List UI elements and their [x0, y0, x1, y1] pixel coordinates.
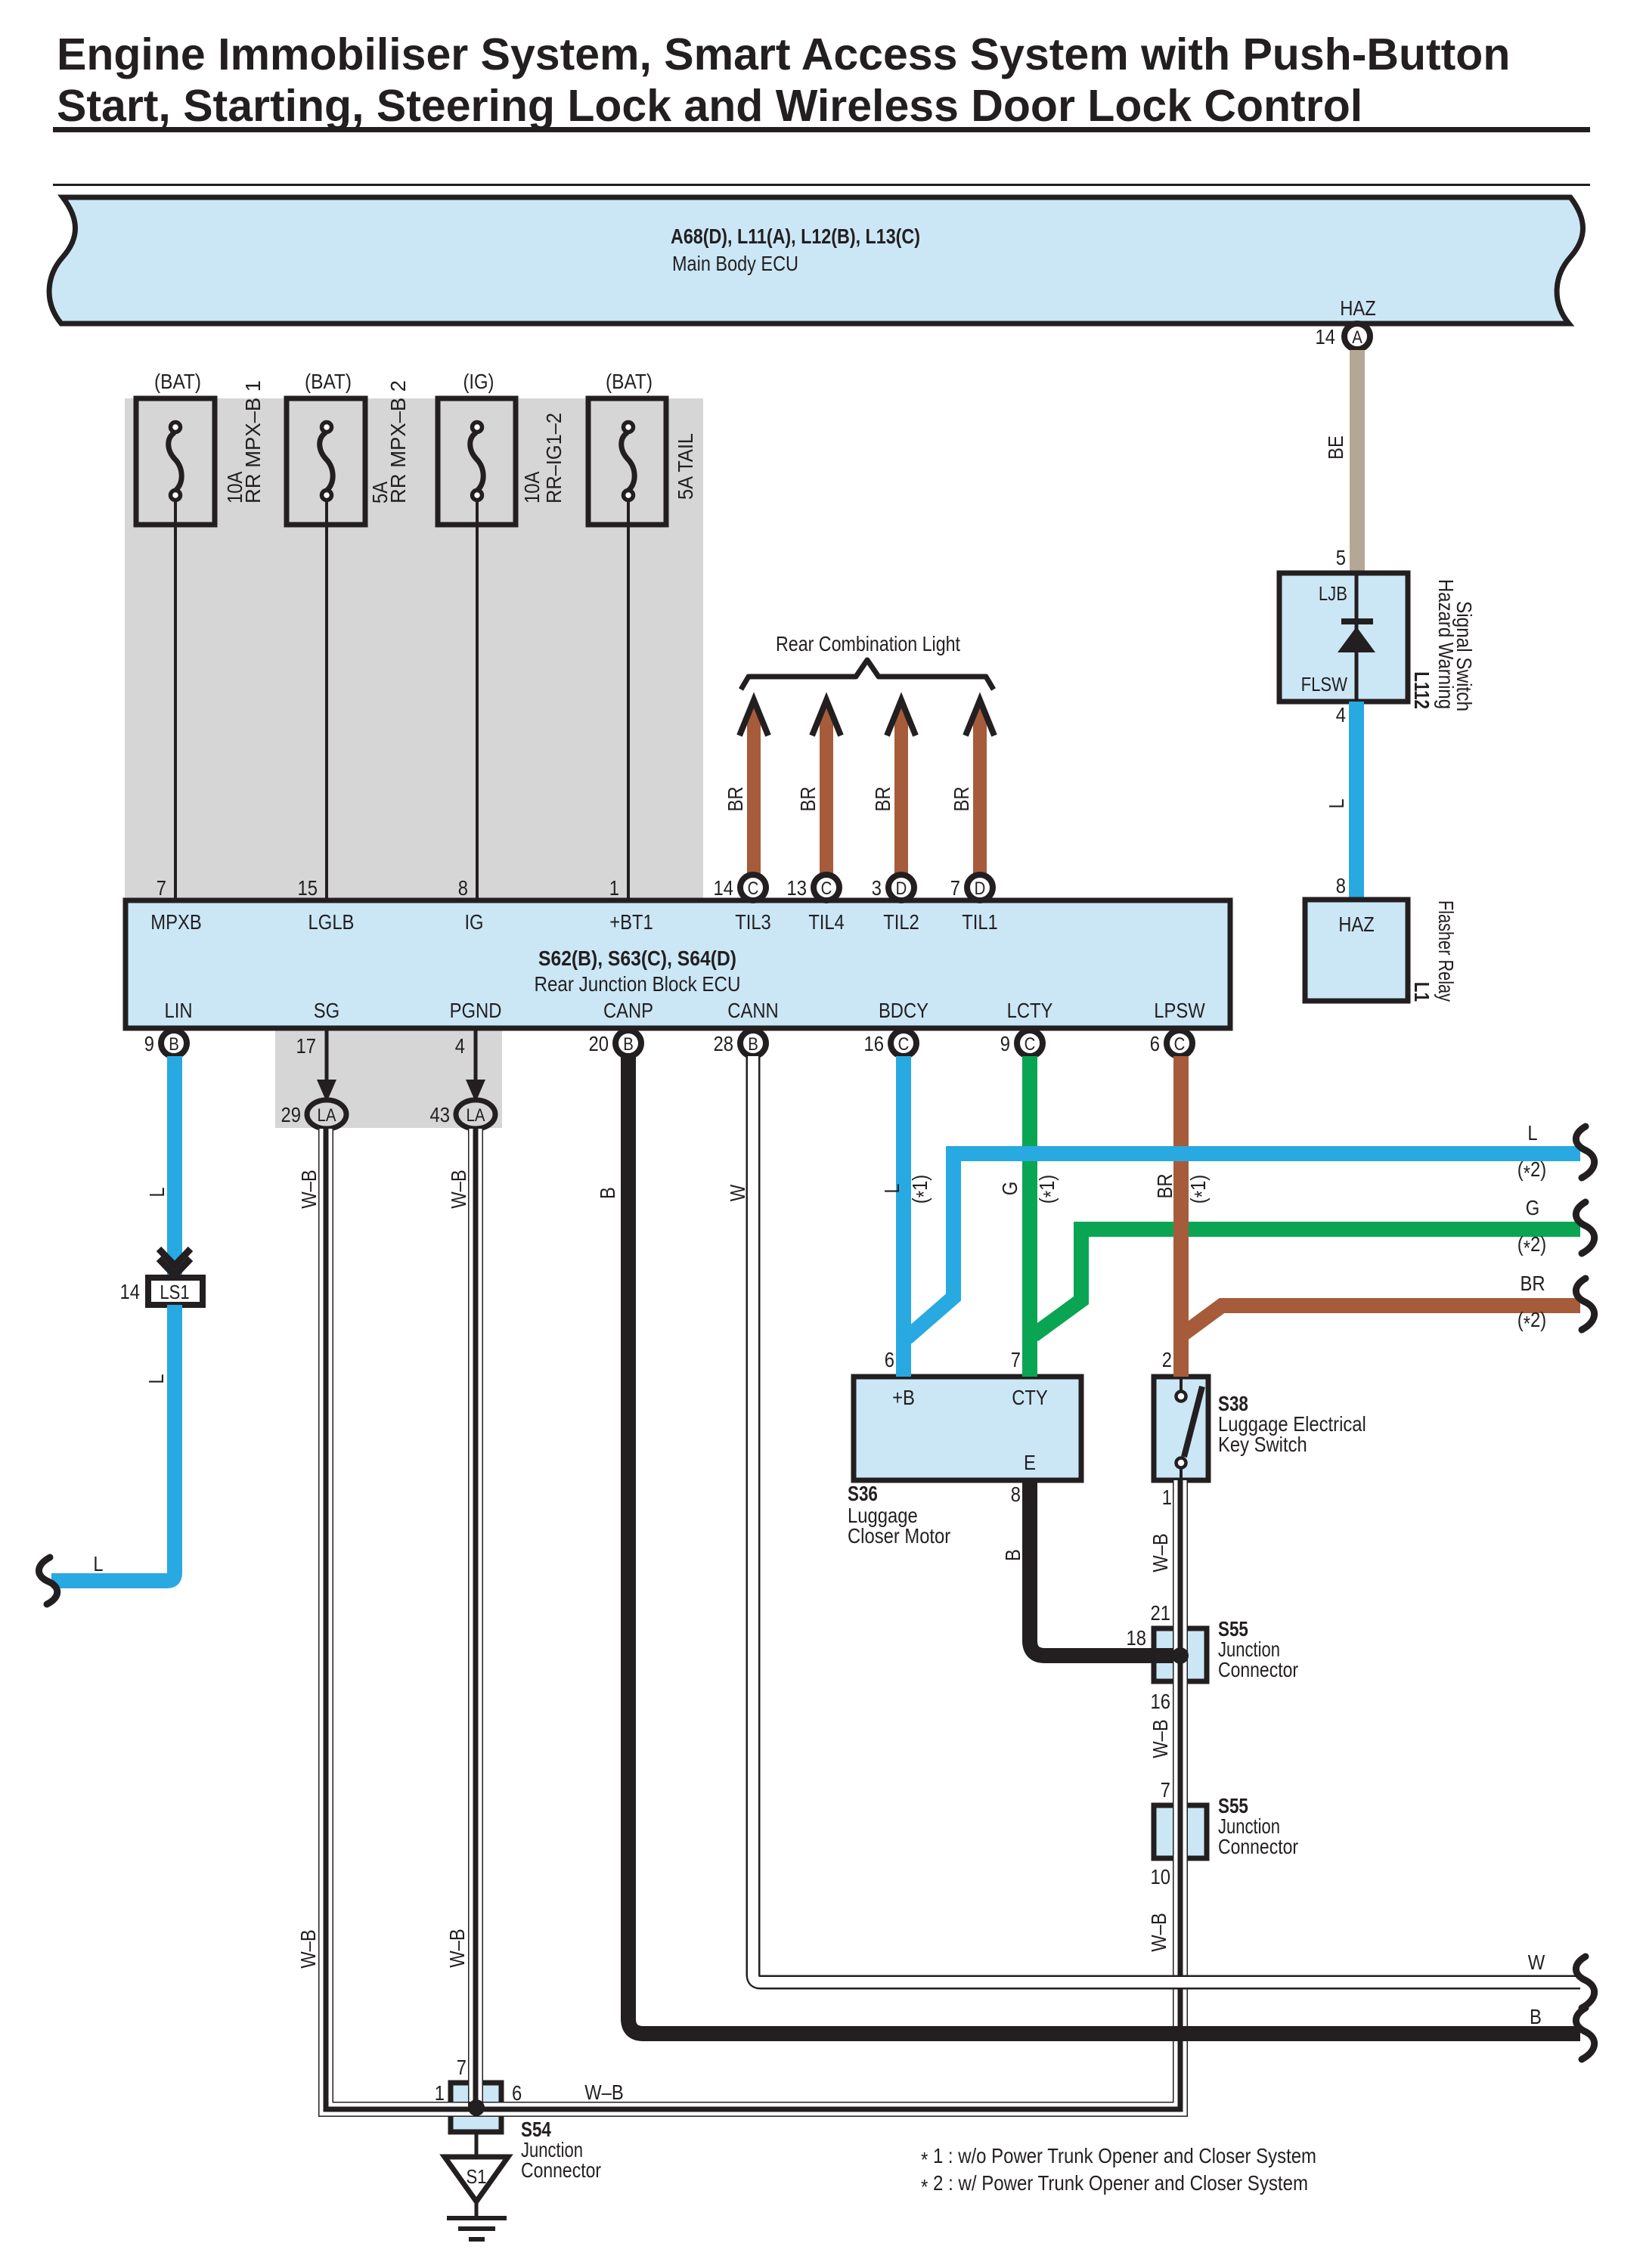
svg-text:(*1): (*1)	[1035, 1175, 1062, 1204]
svg-text:Flasher Relay: Flasher Relay	[1434, 900, 1458, 1002]
svg-text:7: 7	[1011, 1348, 1021, 1371]
svg-text:Main Body ECU: Main Body ECU	[672, 252, 798, 275]
svg-text:LA: LA	[467, 1105, 485, 1126]
S38 label	[1218, 1392, 1366, 1456]
svg-text:BR: BR	[796, 786, 820, 811]
svg-text:9: 9	[144, 1032, 154, 1055]
svg-text:D: D	[975, 878, 986, 899]
svg-text:16: 16	[864, 1032, 885, 1055]
svg-text:4: 4	[455, 1034, 465, 1058]
svg-text:BR: BR	[1520, 1272, 1545, 1295]
svg-text:5: 5	[1336, 546, 1346, 569]
diode inside L112	[1338, 618, 1375, 652]
S55 lower label	[1218, 1794, 1298, 1858]
wire SG to LA with arrowhead	[317, 1028, 336, 1102]
svg-text:A68(D), L11(A), L12(B), L13(C): A68(D), L11(A), L12(B), L13(C)	[671, 225, 920, 248]
wire fuse1 to ECU pin 7	[174, 500, 177, 900]
ground S1	[445, 2132, 508, 2242]
svg-text:L: L	[145, 1187, 169, 1197]
wire BR (LPSW) from pin 6(C) to S38 pin 2 with branch	[1153, 1056, 1580, 1377]
svg-text:W–B: W–B	[296, 1929, 320, 1969]
svg-text:B: B	[1001, 1549, 1025, 1561]
svg-text:5A TAIL: 5A TAIL	[674, 433, 697, 500]
wire BE from Main Body ECU pin 14(A) to L112 pin 5	[1316, 324, 1371, 573]
fuse F_RR-MPX-B2 box (BAT)	[287, 370, 410, 525]
svg-text:Closer Motor: Closer Motor	[848, 1524, 950, 1548]
svg-text:(BAT): (BAT)	[305, 370, 352, 393]
svg-text:B: B	[169, 1034, 179, 1055]
svg-text:TIL3: TIL3	[735, 910, 771, 934]
svg-text:1: 1	[609, 876, 619, 900]
svg-text:SG: SG	[314, 999, 339, 1022]
svg-text:1: 1	[435, 2081, 445, 2105]
svg-text:L1: L1	[1410, 982, 1434, 1002]
S55 upper pin numbers	[1151, 1601, 1171, 1713]
wire L from L112 pin 4 to L1 pin 8	[1325, 702, 1364, 900]
svg-text:Rear Junction Block ECU: Rear Junction Block ECU	[535, 972, 741, 996]
svg-text:S62(B), S63(C), S64(D): S62(B), S63(C), S64(D)	[538, 947, 736, 970]
S36 label	[848, 1482, 950, 1548]
svg-text:16: 16	[1151, 1690, 1171, 1713]
arrow TIL1 (BR)	[950, 700, 994, 875]
svg-text:B: B	[596, 1187, 619, 1199]
wire L from LIN pin 9(B) down to LS1	[145, 1056, 182, 1278]
pin 20(B) CANP	[589, 1030, 642, 1056]
svg-text:A: A	[1352, 327, 1362, 348]
svg-text:G: G	[998, 1182, 1021, 1196]
svg-text:RR MPX–B 1: RR MPX–B 1	[241, 380, 265, 503]
svg-text:(*1): (*1)	[1186, 1175, 1214, 1204]
svg-text:(*2): (*2)	[1517, 1232, 1546, 1259]
svg-text:BR: BR	[1153, 1173, 1176, 1198]
svg-text:BDCY: BDCY	[879, 999, 928, 1022]
svg-text:6: 6	[512, 2081, 522, 2105]
svg-text:RR–IG1–2: RR–IG1–2	[542, 413, 566, 503]
svg-text:7: 7	[950, 876, 960, 900]
svg-text:W–B: W–B	[297, 1170, 321, 1209]
svg-text:S36: S36	[848, 1482, 878, 1505]
S54 pin numbers and W-B label	[435, 2056, 624, 2105]
pin 6(C) LPSW	[1150, 1030, 1192, 1056]
wire W-B from LA(43) down through S54 to center	[445, 1129, 480, 2106]
svg-text:28: 28	[714, 1032, 734, 1055]
Rear Junction Block ECU S62(B),S63(C),S64(D)	[126, 900, 1230, 1028]
op-amp: none; L112 Hazard Warning Signal Switch box	[1279, 573, 1408, 702]
L1 side label	[1410, 900, 1458, 1002]
fuse F_5A-TAIL box (BAT)	[588, 370, 697, 525]
svg-text:3: 3	[872, 876, 882, 900]
svg-text:Engine Immobiliser System, Sma: Engine Immobiliser System, Smart Access …	[57, 29, 1510, 79]
svg-text:L: L	[144, 1374, 168, 1383]
svg-text:Start, Starting, Steering Lock: Start, Starting, Steering Lock and Wirel…	[57, 81, 1362, 131]
fuse F_RR-IG1-2 box (IG)	[438, 370, 566, 525]
svg-text:Rear Combination Light: Rear Combination Light	[776, 632, 960, 655]
svg-text:6: 6	[885, 1348, 894, 1371]
svg-text:7: 7	[157, 876, 166, 900]
svg-text:W–B: W–B	[1147, 1913, 1170, 1952]
pin 28(B) CANN	[714, 1030, 767, 1056]
wire PGND to LA with arrowhead	[466, 1028, 485, 1102]
svg-text:21: 21	[1151, 1601, 1171, 1625]
svg-text:MPXB: MPXB	[150, 910, 202, 934]
svg-text:14: 14	[714, 876, 734, 900]
svg-text:BR: BR	[724, 786, 747, 811]
svg-text:W–B: W–B	[584, 2081, 624, 2104]
svg-text:+B: +B	[892, 1386, 915, 1409]
junction connector S55 (upper) box	[1154, 1628, 1207, 1681]
svg-text:8: 8	[1336, 874, 1346, 897]
svg-text:W–B: W–B	[1149, 1719, 1172, 1758]
pin 14(C) TIL3	[714, 875, 767, 900]
node junction dot in S55 upper	[1172, 1647, 1189, 1664]
svg-text:CANP: CANP	[603, 999, 653, 1022]
svg-text:CANN: CANN	[727, 999, 778, 1022]
node junction dot in S54	[468, 2099, 485, 2116]
svg-text:L: L	[93, 1552, 103, 1576]
svg-text:E: E	[1024, 1451, 1036, 1474]
svg-text:LJB: LJB	[1319, 582, 1347, 605]
wire L (BDCY) from pin 16(C) to S36 +B with branch	[880, 1056, 1580, 1377]
svg-text:W–B: W–B	[1149, 1533, 1172, 1572]
arrow TIL2 (BR)	[871, 700, 916, 875]
wire L from LS1 down and left to harness end	[51, 1305, 175, 1581]
svg-text:* 2 : w/ Power Trunk Opener an: * 2 : w/ Power Trunk Opener and Closer S…	[921, 2171, 1308, 2198]
svg-text:18: 18	[1127, 1626, 1147, 1650]
wire fuse4 to ECU pin 1	[627, 500, 630, 900]
svg-text:LIN: LIN	[165, 999, 193, 1022]
svg-text:9: 9	[1000, 1032, 1010, 1055]
pin 9(C) LCTY	[1000, 1030, 1043, 1056]
svg-text:BR: BR	[871, 786, 894, 811]
ECU top pin numbers	[157, 876, 619, 900]
svg-text:(IG): (IG)	[463, 370, 494, 393]
pin 9(B) LIN	[144, 1030, 187, 1056]
svg-text:BR: BR	[950, 786, 973, 811]
wire B from S36 E pin 8 to S55 pin 18	[1001, 1480, 1180, 1656]
svg-text:(*2): (*2)	[1517, 1157, 1546, 1185]
svg-text:W–B: W–B	[447, 1170, 470, 1209]
svg-text:* 1 : w/o Power Trunk Opener a: * 1 : w/o Power Trunk Opener and Closer …	[921, 2144, 1316, 2171]
junction connector S55 (lower) box	[1154, 1805, 1207, 1858]
svg-text:8: 8	[458, 876, 468, 900]
svg-text:B: B	[1530, 2005, 1542, 2028]
svg-text:Key Switch: Key Switch	[1218, 1433, 1307, 1456]
svg-text:LA: LA	[318, 1105, 336, 1126]
svg-text:W: W	[1528, 1950, 1545, 1974]
brace over rear combination light arrows	[741, 660, 994, 689]
node LA (43)	[430, 1100, 496, 1129]
svg-text:RR MPX–B 2: RR MPX–B 2	[386, 380, 410, 503]
svg-text:W: W	[726, 1184, 749, 1201]
thin horizontal rule	[53, 184, 1590, 186]
L112 side label	[1410, 579, 1476, 711]
svg-text:CTY: CTY	[1012, 1386, 1048, 1409]
svg-text:S1: S1	[467, 2165, 487, 2188]
svg-text:2: 2	[1162, 1348, 1172, 1371]
svg-text:TIL1: TIL1	[962, 910, 998, 934]
svg-text:C: C	[898, 1034, 910, 1055]
harness squiggle B wire end	[1576, 2008, 1594, 2059]
svg-text:HAZ: HAZ	[1340, 296, 1376, 320]
wire fuse3 to ECU pin 8	[476, 500, 479, 900]
svg-text:17: 17	[296, 1034, 317, 1058]
harness squiggle BR branch end	[1576, 1278, 1594, 1330]
svg-text:14: 14	[120, 1280, 141, 1303]
svg-text:7: 7	[457, 2056, 467, 2079]
arrow TIL4 (BR)	[796, 700, 841, 875]
svg-text:6: 6	[1150, 1032, 1160, 1055]
svg-text:HAZ: HAZ	[1338, 912, 1375, 936]
svg-text:TIL4: TIL4	[808, 910, 845, 934]
Main Body ECU band A68(D),L11(A),L12(B),L13(C)	[49, 197, 1583, 324]
svg-text:1: 1	[1162, 1486, 1172, 1509]
svg-text:10A: 10A	[520, 471, 544, 503]
harness squiggle left end of L wire	[39, 1557, 57, 1604]
svg-text:(*1): (*1)	[908, 1175, 935, 1204]
Luggage Closer Motor S36 box	[854, 1377, 1081, 1480]
harness squiggle W wire end	[1576, 1957, 1594, 2008]
svg-text:G: G	[1526, 1196, 1540, 1219]
svg-text:D: D	[896, 878, 907, 899]
node LA (29)	[281, 1100, 347, 1129]
svg-text:10: 10	[1151, 1865, 1171, 1888]
svg-text:L: L	[1325, 798, 1348, 808]
wire W (CANN) from pin 28 down and right to harness	[726, 1056, 1580, 1982]
svg-text:14: 14	[1316, 325, 1336, 349]
S55 lower pin numbers	[1151, 1778, 1171, 1888]
svg-text:(BAT): (BAT)	[154, 370, 201, 393]
connector LS1 with double chevron	[120, 1249, 203, 1305]
svg-text:Connector: Connector	[1218, 1835, 1298, 1858]
svg-text:Connector: Connector	[1218, 1658, 1298, 1681]
gray shaded region (fuse area)	[125, 398, 703, 900]
title	[57, 29, 1510, 131]
svg-text:(BAT): (BAT)	[606, 370, 653, 393]
pin 16(C) BDCY	[864, 1030, 917, 1056]
wire W-B from S38 pin 1 down through S55 connectors	[1147, 1480, 1185, 1952]
svg-text:IG: IG	[464, 910, 483, 934]
Luggage Electrical Key Switch S38 box	[1154, 1377, 1208, 1480]
harness squiggle L branch end	[1576, 1126, 1594, 1178]
svg-text:Connector: Connector	[521, 2158, 601, 2182]
svg-text:(*2): (*2)	[1517, 1308, 1546, 1335]
svg-text:PGND: PGND	[450, 999, 502, 1022]
svg-text:7: 7	[1161, 1778, 1170, 1802]
svg-text:B: B	[623, 1034, 634, 1055]
svg-text:4: 4	[1336, 703, 1346, 727]
harness squiggle G branch end	[1576, 1202, 1594, 1253]
svg-text:C: C	[1174, 1034, 1186, 1055]
L1 Flasher Relay box HAZ	[1305, 900, 1408, 1001]
svg-text:W–B: W–B	[445, 1929, 469, 1968]
svg-text:L112: L112	[1410, 671, 1434, 709]
svg-text:B: B	[748, 1034, 758, 1055]
svg-text:BE: BE	[1324, 435, 1347, 460]
S55 upper label	[1218, 1617, 1298, 1681]
wire fuse2 to ECU pin 15	[325, 500, 328, 900]
pin 3(D) TIL2	[872, 875, 914, 900]
svg-text:C: C	[821, 878, 832, 899]
svg-text:L: L	[1527, 1121, 1537, 1145]
wire B (CANP) from pin 20 down and right to harness	[596, 1056, 1580, 2034]
svg-text:C: C	[748, 878, 759, 899]
svg-text:Signal Switch: Signal Switch	[1452, 601, 1476, 711]
svg-text:43: 43	[430, 1103, 451, 1126]
junction connector S54 box	[451, 2083, 501, 2132]
wire G (LCTY) from pin 9(C) to S36 CTY with branch	[998, 1056, 1580, 1377]
svg-text:C: C	[1025, 1034, 1036, 1055]
svg-text:13: 13	[787, 876, 808, 900]
svg-text:TIL2: TIL2	[883, 910, 919, 934]
svg-text:L: L	[880, 1183, 904, 1193]
svg-text:29: 29	[281, 1103, 302, 1126]
svg-text:FLSW: FLSW	[1301, 673, 1348, 696]
svg-text:LGLB: LGLB	[308, 910, 355, 934]
svg-text:+BT1: +BT1	[609, 910, 653, 934]
svg-text:LCTY: LCTY	[1007, 999, 1053, 1022]
S54 label	[521, 2118, 601, 2182]
svg-text:15: 15	[298, 876, 318, 900]
fuse F_RR-MPX-B1 box (BAT)	[136, 370, 265, 525]
title underline rule	[53, 127, 1590, 132]
pin 7(D) TIL1	[950, 875, 993, 900]
svg-text:LS1: LS1	[160, 1281, 189, 1303]
gray shaded region (below ECU between SG and PGND)	[275, 1028, 502, 1128]
svg-text:LPSW: LPSW	[1154, 999, 1205, 1022]
svg-text:20: 20	[589, 1032, 609, 1055]
arrow TIL3 (BR)	[724, 700, 768, 875]
pin 13(C) TIL4	[787, 875, 840, 900]
svg-text:8: 8	[1011, 1483, 1021, 1506]
wire W-B from LA(29) down and right to S54 pin 1 and on to corner	[296, 1129, 1185, 2114]
